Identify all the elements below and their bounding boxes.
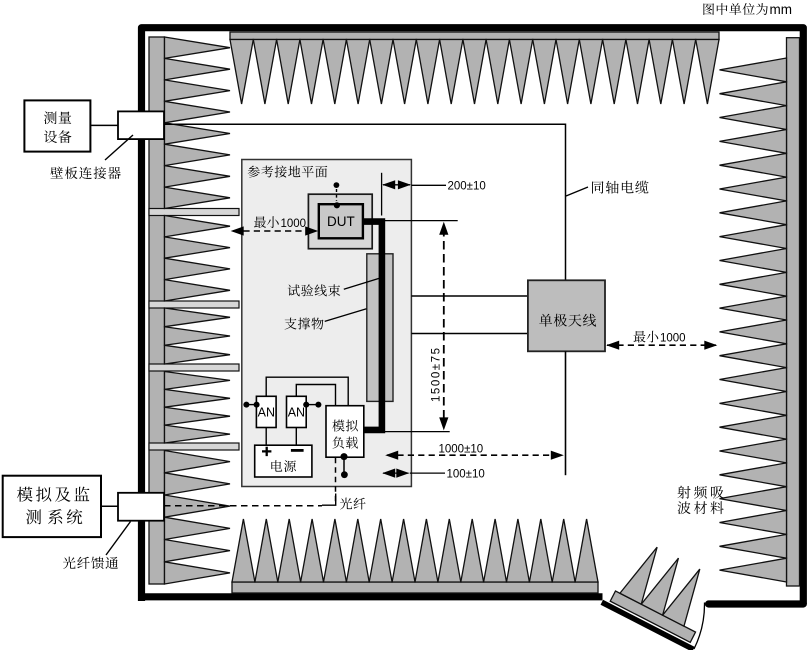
svg-text:200±10: 200±10 — [448, 181, 486, 193]
label 壁板连接器 with leader — [50, 167, 63, 179]
monopole antenna box 单极天线 — [528, 280, 605, 351]
left absorber cones — [165, 37, 231, 58]
measurement equipment box 测量设备 — [24, 100, 90, 151]
dimension 最小1000 (right, antenna to absorber) — [634, 331, 646, 343]
DUT outer enclosure — [308, 194, 372, 249]
wires AN boxes to power supply and load — [265, 428, 267, 446]
reference ground plane 参考接地平面 — [242, 160, 412, 487]
coaxial cable from wall connector to antenna — [164, 124, 566, 280]
antenna feed lines from ground plane — [411, 295, 528, 297]
plus sign — [262, 447, 271, 456]
top absorber backing bar — [230, 32, 719, 40]
svg-text:mm: mm — [770, 2, 793, 17]
label 光纤馈通 with leader — [63, 557, 76, 569]
dimension 200±10 (cable to GP edge) — [381, 173, 383, 216]
svg-text:1000: 1000 — [281, 218, 307, 230]
units note 图中单位为mm — [703, 3, 714, 15]
test harness cable (thick) — [363, 222, 382, 430]
artificial load box 模拟负载 — [326, 406, 364, 458]
label 试验线束 with leader — [288, 284, 300, 296]
svg-text:1000: 1000 — [660, 333, 686, 345]
left absorber separator bars — [149, 209, 239, 216]
support bar 支撑物 — [367, 254, 393, 402]
label 单极天线 — [539, 314, 552, 327]
bottom absorber cones — [232, 519, 255, 582]
label 支撑物 with leader — [285, 318, 297, 330]
dimension 1500±75 (vertical, DUT cable to bottom ref) — [385, 220, 458, 222]
wire system to feedthrough — [101, 505, 118, 507]
top absorber cones — [230, 40, 253, 105]
label 光纤 with elbow tick — [322, 494, 336, 506]
chamber wall bottom-left segment — [138, 593, 603, 600]
label 同轴电缆 with leader — [566, 187, 588, 196]
fiber stub with connector dots below load — [343, 457, 345, 475]
AN box 2 — [287, 396, 307, 427]
monitoring system box 模拟及监测系统 — [3, 476, 101, 537]
label 射频吸波材料 — [677, 486, 690, 499]
wire equipment to connector — [90, 124, 118, 126]
right absorber backing bar — [787, 38, 800, 586]
dot above DUT with dashed drop — [334, 182, 340, 188]
svg-text:AN: AN — [258, 406, 275, 420]
dashed optical fiber drop — [335, 458, 337, 503]
dimension 最小1000 (left, DUT to wall) — [254, 216, 266, 228]
right absorber cones — [720, 58, 787, 82]
label 电源 — [271, 460, 282, 472]
svg-text:1000±10: 1000±10 — [439, 444, 484, 456]
minus sign — [291, 449, 304, 452]
svg-text:DUT: DUT — [327, 214, 355, 229]
left absorber backing bar — [149, 37, 165, 584]
svg-text:AN: AN — [288, 406, 305, 420]
fiber feedthrough box (bottom) — [118, 493, 164, 521]
optical fiber dashed run to feedthrough — [164, 505, 322, 507]
door (open, rotated) with absorber cones — [602, 536, 728, 649]
AN box 1 — [256, 396, 276, 427]
door swing arc — [694, 603, 705, 650]
svg-text:1500±75: 1500±75 — [430, 348, 442, 402]
chamber wall bottom-right stub — [709, 600, 804, 607]
dimension 100±10 (cable to GP edge bottom) — [383, 472, 409, 474]
wall connector feedthrough box (top) — [118, 111, 164, 139]
svg-text:100±10: 100±10 — [447, 469, 485, 481]
AN terminal dots — [246, 404, 256, 406]
power supply box 电源 — [255, 445, 312, 477]
label 参考接地平面 — [248, 166, 260, 178]
chamber wall (left+top+right) — [142, 28, 804, 604]
DUT inner box — [319, 204, 363, 238]
bottom absorber backing bar — [232, 582, 598, 593]
antenna rod — [565, 351, 567, 475]
